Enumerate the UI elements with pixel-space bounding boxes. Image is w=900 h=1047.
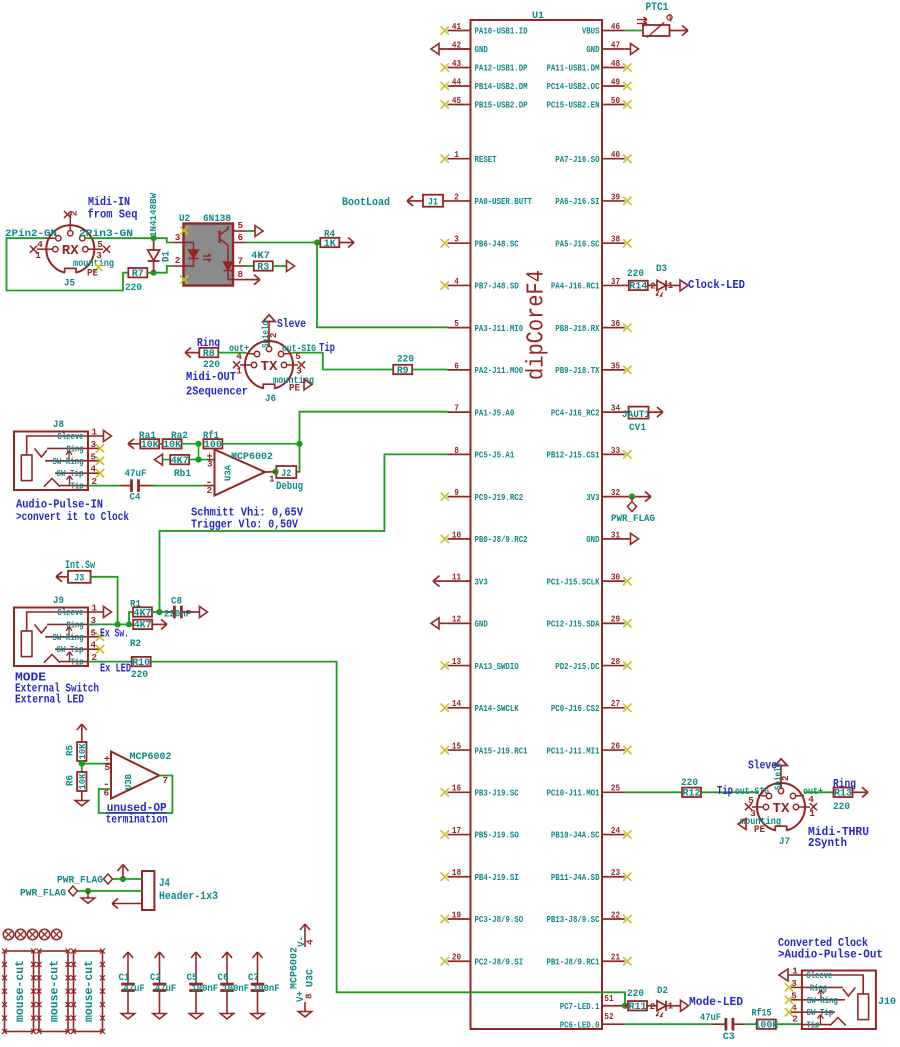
svg-text:C4: C4	[130, 492, 141, 504]
U1 pin 5 PA3-J11.MI0	[448, 318, 524, 334]
svg-text:100K: 100K	[754, 1021, 779, 1032]
gnd arrow pin42	[431, 44, 439, 55]
svg-text:4: 4	[454, 276, 459, 287]
svg-text:Rb1: Rb1	[174, 468, 191, 480]
svg-text:44: 44	[452, 76, 462, 87]
connector JAUT1 CV1	[622, 407, 663, 434]
svg-text:PB4-J19.SI: PB4-J19.SI	[475, 872, 519, 883]
capacitor C5 100nF	[187, 952, 219, 1019]
connector J4 Header-1x3	[142, 871, 218, 910]
svg-text:49: 49	[611, 76, 620, 87]
LED D3	[648, 263, 680, 296]
svg-text:47uF: 47uF	[155, 983, 176, 995]
connector J8 Audio-Pulse-IN jack	[14, 427, 112, 492]
U1 pin 9 PC9-J19.RC2	[441, 487, 524, 503]
svg-text:220: 220	[203, 359, 220, 371]
junction J4 pin1	[120, 876, 126, 882]
label Mode-LED	[681, 996, 744, 1011]
svg-text:13: 13	[452, 656, 462, 667]
svg-text:47: 47	[611, 39, 620, 50]
resistor R11 220	[625, 988, 647, 1013]
svg-text:JAUT1: JAUT1	[622, 409, 650, 421]
U1 pin 47 GND	[586, 39, 625, 55]
U1 pin 39 PA6-J16.SI	[555, 191, 631, 207]
svg-text:R13: R13	[834, 789, 852, 800]
svg-text:24: 24	[611, 825, 621, 836]
svg-text:5: 5	[238, 220, 244, 231]
wire Rf15 to J10	[776, 1023, 802, 1025]
svg-text:U3B: U3B	[123, 774, 134, 790]
fiducial crosses	[3, 929, 61, 939]
svg-text:4K7: 4K7	[134, 608, 152, 619]
connector J7 Midi-THRU DIN (TX)	[740, 759, 823, 848]
svg-text:4K7: 4K7	[134, 621, 152, 632]
svg-text:VBUS: VBUS	[582, 26, 600, 37]
svg-text:Debug: Debug	[276, 481, 303, 493]
mouse-cut area 3	[71, 949, 105, 1034]
wire U1 pin25 to R12	[625, 791, 681, 793]
svg-text:PA10-USB1.ID: PA10-USB1.ID	[475, 26, 528, 37]
svg-text:GND: GND	[586, 534, 600, 545]
svg-text:U1: U1	[532, 10, 544, 22]
svg-text:SW-Ring: SW-Ring	[53, 457, 84, 467]
svg-text:Clock-LED: Clock-LED	[688, 279, 745, 292]
junction C8 node	[156, 609, 162, 615]
wire U1 pin8 to C8 node	[160, 454, 448, 612]
U2 pin5 arrow	[246, 226, 263, 237]
ground R6 bottom	[81, 791, 83, 801]
svg-text:220: 220	[627, 988, 644, 1000]
svg-text:J10: J10	[878, 996, 896, 1008]
svg-text:4: 4	[305, 939, 316, 945]
U1 pin 29 PC12-J15.SDA	[546, 614, 631, 630]
svg-text:220: 220	[627, 268, 644, 280]
svg-text:30: 30	[611, 572, 620, 583]
U1 pin 15 PA15-J19.RC1	[441, 740, 528, 756]
svg-text:Sleve: Sleve	[748, 760, 777, 773]
svg-text:PC15-USB2.EN: PC15-USB2.EN	[546, 100, 599, 111]
svg-text:Midi-IN: Midi-IN	[88, 196, 130, 209]
svg-text:Sleve: Sleve	[277, 318, 306, 331]
svg-text:9: 9	[454, 487, 459, 498]
svg-text:12: 12	[452, 614, 461, 625]
resistor R10 220	[131, 657, 151, 681]
U1 pin 28 PD2-J15.DC	[555, 656, 631, 672]
LED D2	[647, 985, 680, 1017]
wire C3 to Rf15	[745, 1023, 757, 1025]
svg-text:RX: RX	[62, 244, 80, 259]
svg-text:10K: 10K	[163, 440, 182, 451]
svg-text:220: 220	[131, 669, 148, 681]
svg-text:R3: R3	[257, 262, 269, 273]
wire J4 pin3 arrow	[112, 903, 142, 905]
svg-text:Mode-LED: Mode-LED	[689, 996, 743, 1009]
svg-text:1: 1	[454, 149, 459, 160]
capacitor C6 100nF	[218, 952, 250, 1019]
svg-text:5: 5	[454, 318, 459, 329]
wire PTC1 output arrow	[670, 30, 689, 32]
svg-text:47uF: 47uF	[124, 983, 145, 995]
U1 pin 7 PA1-J5.A0	[448, 403, 515, 419]
U1 pin 35 PB9-J18.TX	[555, 360, 631, 376]
U1 pin 25 PC10-J11.MO1	[546, 783, 624, 799]
svg-text:BootLoad: BootLoad	[342, 197, 390, 209]
wire J8 tip to C4	[88, 485, 120, 487]
svg-text:52: 52	[604, 1011, 613, 1022]
svg-text:29: 29	[611, 614, 620, 625]
svg-text:8: 8	[238, 269, 244, 280]
svg-text:22: 22	[611, 909, 620, 920]
svg-text:Tip: Tip	[71, 658, 84, 668]
svg-text:16: 16	[452, 783, 461, 794]
resistor Ra1 10K	[128, 430, 160, 451]
svg-text:1N4148BW: 1N4148BW	[148, 193, 159, 237]
wire U1 pin7 to J2	[296, 412, 447, 472]
svg-text:C3: C3	[723, 1031, 735, 1042]
svg-text:PWR_FLAG: PWR_FLAG	[57, 876, 103, 887]
mouse-cut area 2	[37, 949, 71, 1034]
resistor R13 220 Ring	[804, 778, 868, 813]
svg-text:Sleeve: Sleeve	[806, 971, 832, 981]
svg-text:J4: J4	[159, 878, 170, 890]
connector J2 Debug	[276, 466, 303, 493]
svg-text:7: 7	[238, 256, 244, 267]
mounting arrow J7	[738, 819, 746, 830]
svg-text:PC7-LED.1: PC7-LED.1	[560, 1001, 600, 1012]
svg-text:PB11-J4A.SD: PB11-J4A.SD	[551, 872, 600, 883]
U1 pin 48 PA11-USB1.DM	[546, 58, 631, 74]
svg-text:2Sequencer: 2Sequencer	[186, 386, 248, 399]
svg-text:50: 50	[611, 95, 620, 106]
U1 pin 12 GND	[448, 614, 489, 630]
svg-text:3V3: 3V3	[586, 492, 600, 503]
U1 pin 20 PC2-J8/9.SI	[441, 952, 524, 968]
svg-text:1: 1	[792, 966, 798, 977]
resistor R2 4K7	[130, 619, 167, 650]
label unused-OP termination	[106, 802, 168, 827]
junction R4 node	[314, 239, 320, 245]
svg-text:11: 11	[452, 572, 462, 583]
wire Rf1 to feedback node	[222, 443, 299, 445]
junction Rb node	[195, 457, 201, 463]
svg-text:R6: R6	[65, 775, 77, 786]
label MODE External Switch External LED	[15, 672, 99, 707]
gnd arrow pin31	[625, 538, 631, 540]
svg-text:2: 2	[70, 211, 80, 216]
optocoupler U2 6N138	[173, 213, 246, 286]
op-amp U1 dipCoreF4 body	[471, 10, 603, 1029]
svg-text:PA1-J5.A0: PA1-J5.A0	[475, 407, 515, 418]
U1 pin 43 PA12-USB1.DP	[441, 58, 528, 74]
svg-text:PC9-J19.RC2: PC9-J19.RC2	[475, 492, 524, 503]
svg-text:PC11-J11.MI1: PC11-J11.MI1	[546, 745, 599, 756]
svg-text:R7: R7	[132, 269, 144, 280]
svg-text:25: 25	[611, 783, 621, 794]
svg-text:mouse-cut: mouse-cut	[14, 960, 27, 1022]
svg-text:PC4-J16_RC2: PC4-J16_RC2	[551, 407, 600, 418]
U1 pin 8 PC5-J5.A1	[448, 445, 515, 461]
U1 pin 11 3V3	[448, 572, 489, 588]
diode D1 1N4148BW	[148, 193, 173, 272]
U1 pin 50 PC15-USB2.EN	[546, 95, 631, 111]
junction U3A output	[273, 469, 279, 475]
svg-text:1: 1	[809, 808, 815, 819]
label Clock-LED	[680, 279, 745, 292]
svg-text:PC14-USB2.OC: PC14-USB2.OC	[546, 81, 599, 92]
svg-text:J9: J9	[53, 595, 64, 607]
label Midi-OUT 2Sequencer	[186, 371, 248, 399]
svg-text:PC0-J16.CS2: PC0-J16.CS2	[551, 703, 600, 714]
wire Ra2 to node	[182, 443, 199, 445]
power arrow Sleve J6	[277, 318, 306, 331]
PWR_FLAG diamond top	[104, 874, 113, 884]
svg-text:RESET: RESET	[475, 154, 497, 165]
svg-text:GND: GND	[475, 619, 489, 630]
U1 pin 24 PB10-J4A.SC	[551, 825, 632, 841]
svg-text:51: 51	[604, 993, 614, 1004]
op-amp U3C power pins MCP6002	[289, 924, 317, 1017]
svg-text:43: 43	[452, 58, 462, 69]
svg-text:3: 3	[296, 366, 302, 377]
svg-text:41: 41	[452, 21, 462, 32]
svg-text:2: 2	[650, 1002, 655, 1012]
svg-text:PA11-USB1.DM: PA11-USB1.DM	[546, 63, 599, 74]
svg-text:termination: termination	[106, 814, 168, 827]
wire J6 pin5 Tip to R9	[292, 353, 393, 370]
svg-text:PWR_FLAG: PWR_FLAG	[611, 514, 655, 525]
connector J3 Int.Sw	[56, 560, 95, 585]
label Schmitt Trigger thresholds	[191, 507, 303, 532]
svg-text:PC6-LED.0: PC6-LED.0	[560, 1019, 600, 1030]
wire to U2 pin3	[154, 238, 173, 242]
svg-text:3V3: 3V3	[475, 576, 489, 587]
U1 pin 23 PB11-J4A.SD	[551, 867, 632, 883]
svg-text:220: 220	[833, 801, 850, 813]
svg-text:1: 1	[92, 603, 98, 614]
junction pin51 node	[622, 1003, 628, 1009]
svg-text:SW-Ring: SW-Ring	[53, 633, 84, 643]
wire junction to U2 pin2	[154, 266, 173, 273]
svg-text:5: 5	[105, 762, 111, 773]
mouse-cut area 1	[2, 949, 36, 1034]
wire R1 branch	[129, 612, 133, 624]
svg-text:Header-1x3: Header-1x3	[159, 891, 218, 903]
svg-text:38: 38	[611, 234, 621, 245]
svg-text:R2: R2	[130, 638, 141, 650]
U1 pin 3 PB6-J48.SC	[441, 234, 519, 250]
U1 pin 14 PA14-SWCLK	[441, 698, 519, 714]
svg-text:PE: PE	[289, 383, 300, 395]
svg-text:GND: GND	[586, 44, 600, 55]
svg-text:PB8-J18.RX: PB8-J18.RX	[555, 323, 600, 334]
svg-text:3: 3	[454, 234, 459, 245]
wire J4 pin1 to PWR_FLAG	[113, 878, 143, 880]
svg-text:U3C: U3C	[305, 968, 317, 987]
U1 pin 4 PB7-J48.SD	[441, 276, 519, 292]
svg-text:46: 46	[611, 21, 620, 32]
U1 pin 16 PB3-J19.SC	[441, 783, 519, 799]
wire J5 pin4 loop to R7	[7, 238, 129, 290]
svg-text:34: 34	[611, 403, 621, 414]
svg-text:6: 6	[238, 232, 244, 243]
svg-text:PC5-J5.A1: PC5-J5.A1	[475, 450, 515, 461]
svg-text:100nF: 100nF	[223, 983, 250, 995]
op-amp U3A MCP6002	[206, 450, 277, 497]
svg-text:MCP6002: MCP6002	[130, 751, 172, 763]
svg-text:PA0-USER.BUTT: PA0-USER.BUTT	[475, 196, 533, 207]
resistor R4 1K pullup	[320, 229, 354, 250]
wire VBUS to PTC1	[625, 30, 643, 32]
resistor R9 220	[393, 354, 414, 377]
svg-text:36: 36	[611, 318, 620, 329]
mounting arrow J6	[304, 379, 312, 390]
svg-text:8: 8	[454, 445, 459, 456]
connector J6 Midi-OUT DIN (TX)	[229, 315, 316, 405]
wire R9 to U1 pin6	[412, 369, 447, 371]
svg-text:2: 2	[650, 281, 655, 291]
U1 pin 17 PB5-J19.SO	[441, 825, 519, 841]
svg-text:CV1: CV1	[629, 422, 646, 434]
svg-text:mouse-cut: mouse-cut	[49, 960, 62, 1022]
svg-text:Ex Sw.: Ex Sw.	[100, 628, 129, 641]
svg-text:220: 220	[125, 282, 142, 294]
U1 pin 10 PB0-J8/9.RC2	[441, 529, 528, 545]
svg-text:21: 21	[611, 952, 621, 963]
svg-text:PC10-J11.MO1: PC10-J11.MO1	[546, 788, 599, 799]
svg-text:PE: PE	[87, 268, 98, 280]
U1 pin 18 PB4-J19.SI	[441, 867, 519, 883]
svg-text:PA5-J16.SC: PA5-J16.SC	[555, 238, 600, 249]
svg-text:PB10-J4A.SC: PB10-J4A.SC	[551, 830, 600, 841]
U1 pin 40 PA7-J16.SO	[555, 149, 631, 165]
svg-text:R11: R11	[629, 1002, 647, 1013]
svg-text:48: 48	[611, 58, 621, 69]
svg-text:27: 27	[611, 698, 620, 709]
svg-text:PA4-J16.RC1: PA4-J16.RC1	[551, 281, 600, 292]
svg-text:19: 19	[452, 909, 461, 920]
svg-text:39: 39	[611, 191, 620, 202]
svg-text:Audio-Pulse-IN: Audio-Pulse-IN	[16, 499, 103, 512]
svg-text:D3: D3	[656, 263, 667, 275]
connector J1 BootLoad	[342, 195, 448, 209]
U1 pin 45 PB15-USB2.DP	[441, 95, 528, 111]
svg-text:PA2-J11.MO0: PA2-J11.MO0	[475, 365, 524, 376]
svg-text:2Synth: 2Synth	[808, 837, 847, 850]
svg-text:Tip: Tip	[717, 785, 733, 798]
svg-text:33: 33	[611, 445, 621, 456]
power arrow J4 pin1	[122, 865, 124, 879]
svg-text:35: 35	[611, 360, 621, 371]
svg-text:7: 7	[454, 403, 459, 414]
U1 pin 32 3V3	[586, 487, 625, 503]
gnd arrow pin47	[625, 48, 631, 50]
svg-text:26: 26	[611, 740, 620, 751]
svg-text:External LED: External LED	[15, 694, 84, 707]
svg-text:4: 4	[37, 239, 43, 250]
svg-text:R9: R9	[397, 366, 409, 377]
svg-text:J1: J1	[428, 198, 438, 209]
U1 pin 52 PC6-LED.0	[560, 1011, 625, 1030]
svg-text:1: 1	[236, 366, 242, 377]
svg-text:2: 2	[175, 255, 181, 266]
svg-text:47uF: 47uF	[125, 468, 147, 480]
svg-text:220nF: 220nF	[164, 609, 191, 621]
svg-text:4K7: 4K7	[251, 250, 270, 262]
svg-text:14: 14	[452, 698, 462, 709]
svg-text:PB3-J19.SC: PB3-J19.SC	[475, 788, 520, 799]
resistor R8 220 Ring	[185, 337, 220, 371]
svg-text:mouse-cut: mouse-cut	[83, 960, 96, 1022]
svg-text:MCP6002: MCP6002	[231, 451, 273, 463]
svg-text:U3A: U3A	[223, 465, 234, 481]
svg-text:45: 45	[452, 95, 462, 106]
svg-text:Ring: Ring	[810, 983, 827, 993]
svg-text:8: 8	[304, 993, 315, 999]
svg-text:7: 7	[163, 775, 169, 786]
svg-text:20: 20	[452, 952, 461, 963]
wire U3B feedback loop	[99, 776, 173, 814]
svg-text:R10: R10	[132, 658, 150, 669]
svg-text:Tip: Tip	[806, 1021, 819, 1031]
wire J5 pin5 to D1/U2	[85, 237, 154, 239]
U1 pin 33 PB12-J15.CS1	[546, 445, 631, 461]
U1 pin 30 PC1-J15.SCLK	[546, 572, 631, 588]
svg-text:Sleeve: Sleeve	[58, 432, 84, 442]
svg-text:5: 5	[91, 451, 97, 462]
wire Ra1-Ra2	[159, 443, 162, 445]
U1 pin 21 PB1-J8/9.RC1	[546, 952, 631, 968]
svg-text:5: 5	[97, 239, 103, 250]
svg-text:1: 1	[35, 250, 41, 261]
svg-text:Tip: Tip	[319, 342, 335, 355]
svg-text:2: 2	[269, 333, 279, 338]
svg-text:15: 15	[452, 740, 462, 751]
svg-text:GND: GND	[475, 44, 489, 55]
svg-text:2: 2	[792, 1014, 798, 1025]
U1 pin 1 RESET	[441, 149, 497, 165]
U1 pin 37 PA4-J16.RC1	[551, 276, 625, 292]
svg-text:17: 17	[452, 825, 461, 836]
svg-text:TX: TX	[773, 802, 791, 817]
svg-text:D1: D1	[162, 251, 173, 262]
resistor R5 10K	[65, 742, 89, 761]
svg-text:MCP6002: MCP6002	[289, 947, 301, 989]
3V3 arrow pin11	[433, 580, 448, 582]
svg-text:Rf15: Rf15	[752, 1007, 772, 1019]
svg-text:SW-Ring: SW-Ring	[807, 996, 838, 1006]
U1 pin 2 PA0-USER.BUTT	[448, 191, 533, 207]
resistor R3 4K7	[246, 250, 295, 273]
svg-text:R12: R12	[683, 789, 701, 800]
svg-text:PA3-J11.MI0: PA3-J11.MI0	[475, 323, 524, 334]
U1 pin 49 PC14-USB2.OC	[546, 76, 631, 92]
wire Rb1 to plus input	[189, 459, 207, 461]
svg-text:220: 220	[397, 354, 414, 366]
ground J4 pin2	[87, 891, 89, 898]
wire R7 to D1 junction	[147, 272, 153, 274]
resistor Rb1 4K7	[155, 454, 192, 480]
svg-text:PA12-USB1.DP: PA12-USB1.DP	[475, 63, 528, 74]
U1 pin 34 PC4-J16_RC2	[551, 403, 625, 419]
svg-text:PD2-J15.DC: PD2-J15.DC	[555, 661, 600, 672]
U1 pin 6 PA2-J11.MO0	[448, 360, 524, 376]
svg-text:28: 28	[611, 656, 621, 667]
svg-text:PA15-J19.RC1: PA15-J19.RC1	[475, 745, 528, 756]
connector J5 Midi-IN DIN (RX)	[5, 211, 133, 290]
capacitor C2 47uF	[150, 952, 176, 1019]
label Converted Clock Audio-Pulse-Out	[778, 937, 883, 962]
svg-text:18: 18	[452, 867, 462, 878]
